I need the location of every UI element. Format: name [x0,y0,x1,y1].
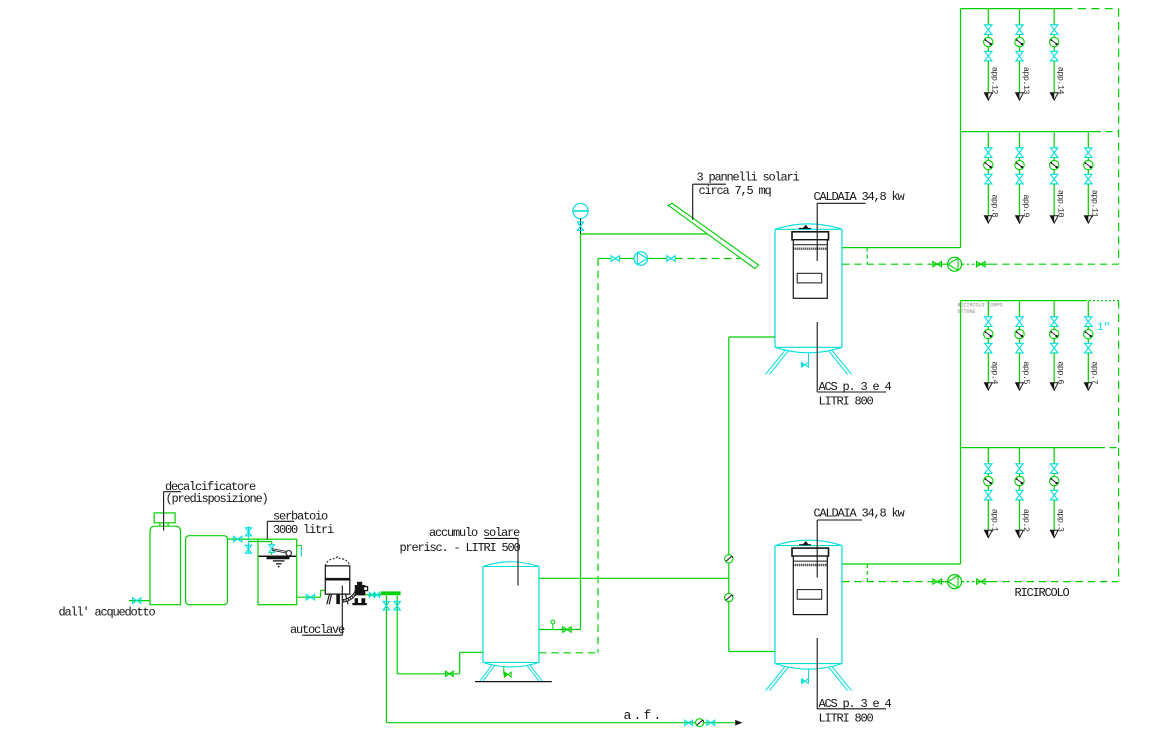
valve: upper ricircolo left [931,263,948,265]
vessel: autoclave (black) [325,566,350,594]
svg-text:app.13: app.13 [1021,67,1031,95]
tee with test valves [248,526,250,554]
shut-off valve app.5 top [1016,317,1023,327]
valve: solar return right [667,256,675,262]
svg-text:app.11: app.11 [1090,190,1100,218]
svg-text:app.2: app.2 [1021,509,1031,532]
decalcificatore cap [154,513,175,523]
svg-text:app.5: app.5 [1021,361,1031,384]
wire: solar coil return dashed from tank [539,652,598,654]
valve: a.f. left [685,720,693,725]
valve: supply [133,598,141,604]
pipe riser app.12 [987,9,989,25]
shut-off valve app.12 top [985,25,992,35]
pump: solar circulator [634,252,648,266]
valve: filter outlet [233,536,241,542]
svg-text:app.9: app.9 [1021,194,1031,217]
wire: upper return dashed right border [1118,9,1120,265]
wire: group4 header solid [961,447,1099,449]
wire: solar coil supply into tank [539,629,581,631]
leader: CALDAIA upper [817,202,865,204]
shut-off valve app.7 bottom [1085,343,1092,353]
wire: vessel stem (black) [580,219,582,234]
water meter app.7 [1084,329,1093,338]
leader: pannelli solari [693,183,726,185]
pipe riser app.3 [1053,448,1055,464]
node: lower distribution supply main (vertical) [960,301,962,564]
pipe riser app.1 [987,448,989,464]
wire: lower recirculation dashed from boiler [842,581,931,583]
vessel: filter tank [186,536,228,605]
base line under accumulo [475,681,552,683]
svg-text:ACS p. 3 e 4: ACS p. 3 e 4 [819,697,892,711]
pipe riser app.6 [1053,301,1055,317]
flue flag on top [799,228,811,230]
tank: accumulo solare shell [483,567,539,663]
leader: ACS lower [816,638,818,709]
leader: serbatoio [267,520,294,522]
svg-text:app.1: app.1 [990,509,1000,532]
outlet arrow app.11 [1084,216,1092,223]
wire: lower return dashed right border [1118,301,1120,582]
svg-text:circa 7,5 mq: circa 7,5 mq [699,184,772,198]
svg-text:LITRI 800: LITRI 800 [819,712,874,726]
outlet arrow app.3 [1050,530,1058,537]
svg-text:ACS p. 3 e 4: ACS p. 3 e 4 [819,380,892,394]
shut-off valve app.13 top [1016,25,1023,35]
tank: ACS boiler shell [775,546,842,664]
water meter app.10 [1050,160,1059,169]
water meter app.14 [1050,37,1059,46]
wire: solar return dashed horizontal [598,258,611,260]
pump: pressurisation unit (black) [355,585,366,595]
outlet arrow app.9 [1016,216,1024,223]
svg-text:dall' acquedotto: dall' acquedotto [59,606,156,620]
pipe riser app.13 [1019,9,1021,25]
flexible hose (braided) [342,585,363,602]
wire: solar return dashed vertical [597,259,599,653]
wire: pump outlet to manifold [365,594,381,596]
wire: serbatoio outlet [297,596,321,598]
valve: pump outlet pair [369,592,374,597]
shut-off valve app.1 bottom [985,490,992,500]
outlet arrow app.8 [984,216,992,223]
water meter app.8 [984,160,993,169]
wire: serbatoio inlet drop [249,541,272,543]
burner unit (black) [792,548,829,556]
svg-text:serbatoio: serbatoio [273,510,328,524]
shut-off valve app.4 bottom [985,343,992,353]
svg-text:app.3: app.3 [1056,509,1066,532]
valve: accumulo inlet [446,671,454,676]
pump: upper ricircolo [948,257,962,271]
shut-off valve app.8 bottom [985,174,992,184]
accumulo drain valve [503,667,505,675]
tank drain valve [808,353,810,362]
water meter app.12 [984,37,993,46]
wire: group1 header dashed tail [1065,8,1119,10]
arrow: a.f. direction [735,720,742,726]
wire: upper recirculation dashed from boiler [842,263,931,265]
pipe riser app.11 [1087,132,1089,148]
shut-off valve app.3 top [1051,464,1058,474]
svg-text:app.7: app.7 [1090,361,1100,384]
wire: group2 header dashed tail [1094,131,1119,133]
shut-off valve app.11 top [1085,148,1092,158]
pipe riser app.2 [1019,448,1021,464]
water meter app.5 [1015,329,1024,338]
svg-text:app.4: app.4 [990,361,1000,384]
valve: a.f. right [707,720,715,725]
svg-text:LITRI 800: LITRI 800 [819,395,874,409]
water meter app.13 [1015,37,1024,46]
svg-text:app.12: app.12 [990,67,1000,95]
shut-off valve app.2 bottom [1016,490,1023,500]
svg-text:RICIRCOLO CORPO: RICIRCOLO CORPO [958,303,1003,309]
autoclave legs [327,594,332,604]
water meter app.4 [984,329,993,338]
shut-off valve app.14 top [1051,25,1058,35]
tank: ACS boiler shell [775,229,842,347]
valve: serbatoio outlet [306,594,314,600]
tank legs [766,350,789,374]
outlet arrow app.14 [1050,93,1058,100]
pipe riser app.9 [1019,132,1021,148]
burner unit (black) [792,232,829,240]
manifold bar [381,591,401,595]
solar panel (3 pannelli solari) [668,203,759,268]
svg-text:app.6: app.6 [1056,361,1066,384]
wire: dotted between pump and valve [962,263,977,265]
valve: coil supply [563,627,571,633]
shut-off valve app.3 bottom [1051,490,1058,500]
shut-off valve app.5 bottom [1016,343,1023,353]
outlet arrow app.4 [984,383,992,390]
water level symbol [259,555,296,557]
shut-off valve app.12 bottom [985,51,992,61]
float ball and arm [272,549,286,553]
outlet arrow app.10 [1050,216,1058,223]
water meter app.1 [984,476,993,485]
outlet arrow app.7 [1084,383,1092,390]
leader: decalcificatore [164,491,181,493]
overflow spout [297,545,302,547]
leader: autoclave [302,634,342,636]
wire: cold inlet riser to accumulo [460,651,483,653]
safety group: expansion vessel [573,203,588,218]
water meter app.2 [1015,476,1024,485]
valve: right drop [394,601,400,610]
shut-off valve app.9 bottom [1016,174,1023,184]
svg-text:OTTONE: OTTONE [958,309,976,315]
accumulo legs [480,665,496,682]
air vent on coil supply [552,624,554,630]
leader: CALDAIA lower [817,519,862,521]
wire: filter to serbatoio [228,538,259,540]
valve: ball valve upper feed [725,555,733,563]
wire: upper recirculation dashed to right border [990,263,1119,265]
wire: group2 header solid [961,131,1095,133]
wire: boiler2 cold inlet [729,651,775,653]
outlet arrow app.12 [984,93,992,100]
shut-off valve app.10 bottom [1051,174,1058,184]
valve: ball valve lower feed [725,593,733,601]
shut-off valve app.2 top [1016,464,1023,474]
shut-off valve app.9 top [1016,148,1023,158]
svg-text:app.14: app.14 [1056,67,1066,95]
valve: solar return left [611,256,619,262]
valve: lower ricircolo right [976,581,990,583]
wire: manifold drop left (a.f.) [385,595,387,723]
boiler B2 (lower CALDAIA) [766,540,852,691]
wire: dashed connector boiler2 flow/return [866,564,868,582]
shut-off valve app.13 bottom [1016,51,1023,61]
svg-text:app.10: app.10 [1056,190,1066,218]
wire: dotted between pump and valve [962,581,977,583]
leader: ACS upper [816,322,818,392]
water meter app.3 [1050,476,1059,485]
shut-off valve app.8 top [985,148,992,158]
wire: manifold drop right (to accumulo) [396,595,398,674]
shut-off valve app.1 top [985,464,992,474]
pipe riser app.10 [1053,132,1055,148]
wire: dashed connector boiler1 flow/return [866,248,868,265]
wire: solar flow horizontal [581,233,708,235]
water meter app.9 [1015,160,1024,169]
wire: cold feed vertical [728,337,730,652]
svg-text:CALDAIA 34,8 kw: CALDAIA 34,8 kw [814,507,906,521]
water meter app.6 [1050,329,1059,338]
wire: group4 header dashed tail [1098,447,1119,449]
svg-text:(predisposizione): (predisposizione) [166,492,268,506]
svg-text:a.f.: a.f. [624,708,664,723]
flue flag on top [799,544,811,546]
pipe riser app.14 [1053,9,1055,25]
svg-text:prerisc. - LITRI 500: prerisc. - LITRI 500 [400,541,521,555]
pipe riser app.8 [987,132,989,148]
wire: group3 header dotted tail [1085,300,1119,302]
pump: lower ricircolo [948,575,962,589]
wire: cold inlet bottom run [397,673,460,675]
svg-text:3 pannelli solari: 3 pannelli solari [697,171,800,185]
wire: jog up to autoclave [320,590,322,597]
wire: solar return dashed to panel [675,258,740,260]
svg-text:CALDAIA 34,8 kw: CALDAIA 34,8 kw [814,190,906,204]
shut-off valve app.11 bottom [1085,174,1092,184]
outlet arrow app.6 [1050,383,1058,390]
wire: acqua fredda bottom run [386,722,736,724]
shut-off valve app.6 bottom [1051,343,1058,353]
shut-off valve app.6 top [1051,317,1058,327]
wire: boiler1 cold inlet [729,336,775,338]
valve: left drop [383,601,389,610]
svg-text:RICIRCOLO: RICIRCOLO [1015,586,1070,600]
valve: upper ricircolo right [976,263,990,265]
wire: lower recirculation dashed to right border [990,581,1119,583]
wire: boiler2 flow line to main [842,563,961,565]
pipe riser app.4 [987,301,989,317]
check valve: a.f. [696,719,704,727]
outlet arrow app.1 [984,530,992,537]
wire: boiler1 flow line to main [842,247,961,249]
shut-off valve app.4 top [985,317,992,327]
valve: under expansion vessel [578,222,584,230]
wire: group3 header solid [961,300,1086,302]
valve: lower ricircolo left [931,581,948,583]
valve: float inlet [269,545,275,553]
outlet arrow app.13 [1016,93,1024,100]
wire: group1 header solid [961,8,1065,10]
svg-text:app.8: app.8 [990,194,1000,217]
tank drain valve [808,670,810,679]
wire: accumulo hot outlet to feed vertical [539,577,729,579]
shut-off valve app.14 bottom [1051,51,1058,61]
shut-off valve app.7 top [1085,317,1092,327]
shut-off valve app.10 top [1051,148,1058,158]
svg-text:3000 litri: 3000 litri [273,523,334,537]
vessel: serbatoio 3000 litri [258,539,297,605]
wire: aqueduct supply [129,600,150,602]
pipe riser app.5 [1019,301,1021,317]
tank legs [766,667,789,691]
svg-text:1": 1" [1097,322,1110,334]
wire: solar flow vertical [580,234,582,630]
outlet arrow app.2 [1016,530,1024,537]
water meter app.11 [1084,160,1093,169]
pipe riser app.7 [1087,301,1089,317]
outlet arrow app.5 [1016,383,1024,390]
boiler B1 (upper CALDAIA) [766,224,852,374]
leader: accumulo [484,537,518,539]
vessel: decalcificatore bottle [150,526,181,605]
node: upper distribution supply main (vertical) [960,9,962,248]
